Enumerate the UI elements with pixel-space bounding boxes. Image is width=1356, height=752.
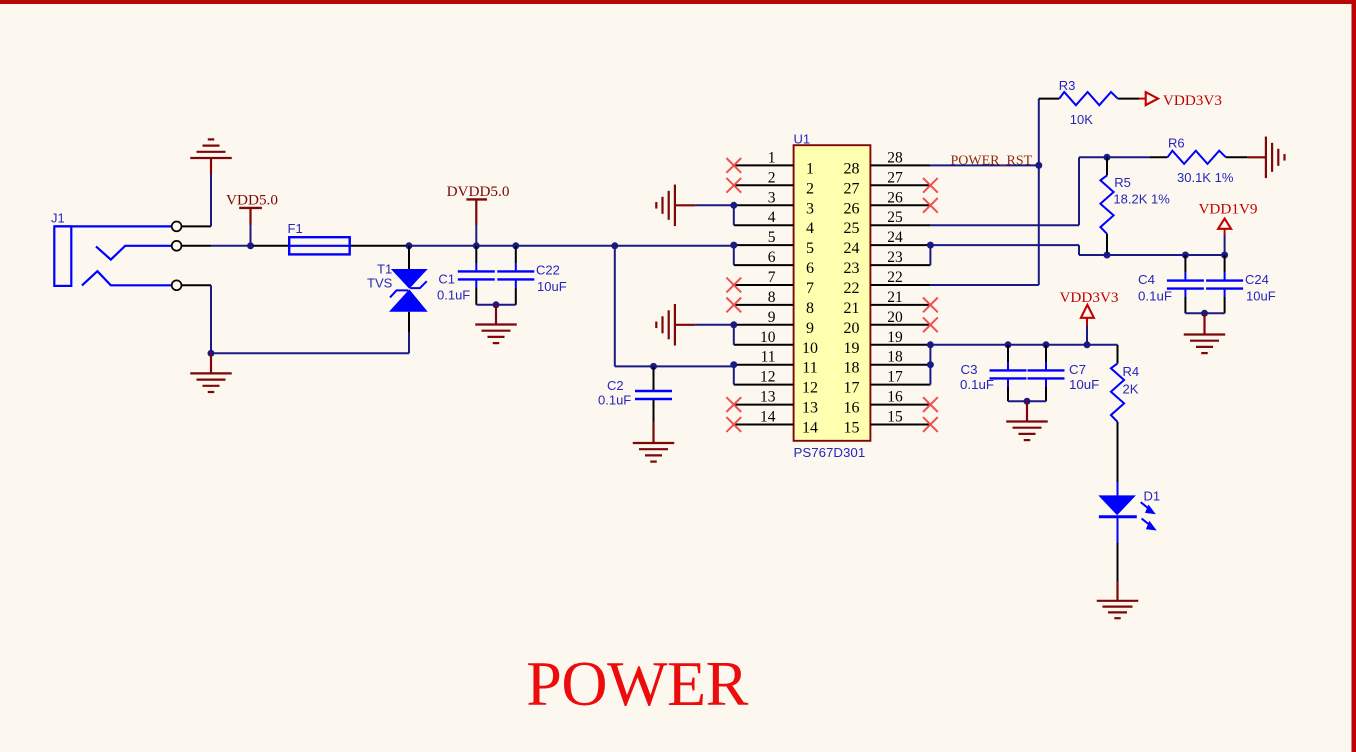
- svg-text:12: 12: [760, 369, 776, 386]
- svg-text:C22: C22: [536, 263, 560, 278]
- ground (C3/C7): [1006, 401, 1048, 440]
- svg-text:0.1uF: 0.1uF: [598, 393, 631, 408]
- svg-text:C3: C3: [961, 362, 978, 377]
- svg-text:26: 26: [887, 189, 903, 206]
- svg-text:TVS: TVS: [367, 276, 393, 291]
- wire VDD3V3 stem: [1086, 326, 1088, 345]
- svg-text:21: 21: [844, 300, 860, 317]
- sheet border right: [1352, 0, 1356, 752]
- svg-text:10uF: 10uF: [1069, 377, 1099, 392]
- U1 pin 2: [734, 169, 814, 197]
- svg-text:6: 6: [806, 260, 814, 277]
- J1 pin 3: [182, 284, 211, 286]
- wire pin 25: [930, 224, 1079, 226]
- capacitor C7: [1028, 345, 1100, 402]
- junction C1/C22 ground: [493, 301, 500, 308]
- svg-text:VDD3V3: VDD3V3: [1059, 289, 1118, 306]
- capacitor C4: [1138, 255, 1204, 313]
- wire F1 to T1 node: [382, 245, 409, 247]
- capacitor C1: [437, 246, 495, 305]
- wire C3-C7 bottom: [1008, 400, 1046, 402]
- wire VDD3V3 rail: [930, 344, 1117, 346]
- resistor R6 30.1K 1%: [1150, 136, 1247, 186]
- no-connect X pin 16: [923, 397, 938, 412]
- wire pin 5 to pin 6: [733, 245, 735, 265]
- svg-text:11: 11: [761, 349, 776, 366]
- svg-text:26: 26: [844, 200, 860, 217]
- wire J1 pin1 to top ground: [210, 174, 212, 226]
- svg-text:12: 12: [802, 380, 818, 397]
- svg-text:20: 20: [844, 320, 860, 337]
- junction pin 3: [730, 202, 737, 209]
- wire pin 23 join: [929, 245, 931, 265]
- svg-text:9: 9: [768, 309, 776, 326]
- svg-text:C1: C1: [438, 272, 455, 287]
- svg-text:5: 5: [806, 240, 814, 257]
- U1 pin 7: [734, 269, 814, 297]
- svg-text:25: 25: [887, 209, 903, 226]
- connector J1: [51, 211, 172, 286]
- svg-text:2K: 2K: [1123, 382, 1139, 397]
- svg-text:4: 4: [768, 209, 776, 226]
- svg-text:VDD1V9: VDD1V9: [1198, 201, 1257, 218]
- svg-text:0.1uF: 0.1uF: [437, 288, 470, 303]
- wire VDD1V9 stem: [1224, 235, 1226, 255]
- U1 pin 24: [844, 229, 931, 257]
- junction C4: [1182, 252, 1189, 259]
- no-connect X pin 13: [726, 397, 741, 412]
- no-connect X pin 15: [923, 417, 938, 432]
- wire D1 to ground: [1117, 543, 1119, 581]
- svg-text:10: 10: [802, 340, 818, 357]
- svg-text:1: 1: [806, 160, 814, 177]
- svg-text:C7: C7: [1069, 362, 1086, 377]
- svg-text:18.2K 1%: 18.2K 1%: [1113, 192, 1170, 207]
- svg-text:POWER: POWER: [526, 648, 748, 719]
- no-connect X pin 14: [726, 417, 741, 432]
- junction pin 19: [927, 341, 934, 348]
- ground (pins 3/4): [656, 185, 695, 227]
- ground (R6, sideways): [1247, 137, 1284, 179]
- junction VDD3V3 stem: [1084, 341, 1091, 348]
- no-connect X pin 21: [923, 298, 938, 313]
- svg-text:2: 2: [768, 169, 776, 186]
- svg-text:J1: J1: [51, 211, 65, 226]
- svg-text:10K: 10K: [1070, 112, 1093, 127]
- junction pin 18: [927, 361, 934, 368]
- power port VDD3V3 (C3/C7): [1059, 289, 1118, 326]
- svg-text:7: 7: [768, 269, 776, 286]
- svg-text:R3: R3: [1059, 78, 1076, 93]
- svg-text:16: 16: [844, 400, 860, 417]
- J1 pin 1: [182, 225, 211, 227]
- sheet border top: [0, 0, 1356, 4]
- svg-text:2: 2: [806, 180, 814, 197]
- U1 pin 26: [844, 189, 931, 217]
- svg-text:10: 10: [760, 329, 776, 346]
- no-connect X pin 1: [726, 158, 741, 173]
- capacitor C2: [598, 366, 672, 422]
- svg-text:17: 17: [844, 380, 860, 397]
- junction pin 24: [927, 242, 934, 249]
- LED D1: [1098, 482, 1160, 543]
- wire bottom ground rail: [211, 352, 409, 354]
- U1 pin 20: [844, 309, 931, 337]
- junction POWER_RST node: [1035, 162, 1042, 169]
- U1 pin 1: [734, 149, 814, 177]
- wire ground to pin 9: [695, 324, 734, 326]
- svg-text:C24: C24: [1245, 272, 1269, 287]
- junction C1: [473, 242, 480, 249]
- svg-text:D1: D1: [1144, 489, 1161, 504]
- wire pin 28 POWER_RST: [930, 164, 1038, 166]
- wire pin 9 to pin 10: [733, 325, 735, 345]
- svg-text:20: 20: [887, 309, 903, 326]
- U1 pin 27: [844, 169, 931, 197]
- ground (pins 9/10): [656, 304, 695, 346]
- port VDD3V3 (R3): [1139, 92, 1222, 109]
- U1 pin 14: [734, 409, 818, 437]
- U1 pin 25: [844, 209, 931, 237]
- junction R5 bottom: [1104, 252, 1111, 259]
- svg-text:0.1uF: 0.1uF: [960, 377, 994, 392]
- wire node up to R3: [1038, 99, 1040, 166]
- wire VDD1V9 rail: [1079, 254, 1225, 256]
- U1 pin 3: [734, 189, 814, 217]
- wire J1 pin3 down: [210, 285, 212, 353]
- wire VDD5.0 to main rail: [250, 225, 252, 246]
- svg-text:18: 18: [887, 349, 903, 366]
- no-connect X pin 7: [726, 278, 741, 293]
- svg-text:28: 28: [887, 149, 903, 166]
- wire pin 24/23 to VDD1V9 rail: [930, 244, 1079, 246]
- power port VDD5.0: [226, 192, 278, 226]
- capacitor C24: [1206, 255, 1276, 313]
- wire ground to pin 3: [695, 204, 734, 206]
- svg-text:27: 27: [887, 169, 903, 186]
- U1 pin 22: [844, 269, 931, 297]
- U1 pin 6: [734, 249, 814, 277]
- capacitor C22: [497, 246, 566, 305]
- svg-text:C2: C2: [607, 378, 624, 393]
- U1 pin 5: [734, 229, 814, 257]
- wire pin 11 to pin 12: [733, 365, 735, 385]
- no-connect X pin 20: [923, 317, 938, 332]
- junction R5 top: [1104, 154, 1111, 161]
- svg-text:23: 23: [844, 260, 860, 277]
- U1 pin 9: [734, 309, 814, 337]
- U1 pin 8: [734, 289, 814, 317]
- wire C1-C22 bottom: [476, 304, 516, 306]
- wire C4-C24 bottom: [1185, 312, 1224, 314]
- U1 pin 13: [734, 389, 818, 417]
- TVS diode T1: [367, 246, 428, 332]
- U1 pin 10: [734, 329, 818, 357]
- junction T1: [406, 242, 413, 249]
- svg-text:10uF: 10uF: [1246, 289, 1276, 304]
- junction C2: [650, 363, 657, 370]
- wire pin11 row: [615, 365, 734, 367]
- wire main 5V rail: [409, 245, 734, 247]
- svg-text:8: 8: [806, 300, 814, 317]
- svg-text:6: 6: [768, 249, 776, 266]
- resistor R4 2K: [1111, 345, 1139, 482]
- IC U1 PS767D301: [794, 132, 871, 461]
- power port VDD1V9: [1198, 201, 1257, 236]
- svg-text:4: 4: [806, 220, 814, 237]
- no-connect X pin 27: [923, 178, 938, 193]
- svg-text:24: 24: [844, 240, 860, 257]
- svg-text:23: 23: [887, 249, 903, 266]
- svg-text:3: 3: [768, 189, 776, 206]
- svg-text:POWER_RST: POWER_RST: [951, 154, 1033, 169]
- svg-text:21: 21: [887, 289, 903, 306]
- wire DVDD5.0 to rail: [475, 225, 477, 246]
- U1 pin 19: [844, 329, 931, 357]
- svg-text:14: 14: [760, 409, 776, 426]
- svg-text:VDD5.0: VDD5.0: [226, 192, 278, 209]
- junction C24/VDD1V9: [1221, 252, 1228, 259]
- svg-text:5: 5: [768, 229, 776, 246]
- U1 pin 23: [844, 249, 931, 277]
- wire pins 17/18/19 join: [929, 345, 931, 385]
- U1 pin 4: [734, 209, 814, 237]
- svg-text:R5: R5: [1114, 175, 1131, 190]
- J1 pin 2: [182, 245, 211, 247]
- U1 pin 28: [844, 149, 931, 177]
- svg-text:22: 22: [844, 280, 860, 297]
- no-connect X pin 26: [923, 198, 938, 213]
- ground (C4/C24): [1184, 313, 1226, 353]
- wire T1 to ground rail: [408, 332, 410, 353]
- svg-text:19: 19: [887, 329, 903, 346]
- U1 pin 21: [844, 289, 931, 317]
- svg-text:25: 25: [844, 220, 860, 237]
- junction C22: [512, 242, 519, 249]
- svg-text:7: 7: [806, 280, 814, 297]
- svg-text:1: 1: [768, 149, 776, 166]
- no-connect X pin 2: [726, 178, 741, 193]
- junction pin 5: [730, 242, 737, 249]
- ground (top, inverted): [190, 139, 232, 174]
- wire node down to pin 22: [1038, 165, 1040, 285]
- no-connect X pin 8: [726, 298, 741, 313]
- power port DVDD5.0: [447, 183, 510, 225]
- wire R6/R5 node: [1079, 156, 1150, 158]
- capacitor C3: [960, 345, 1027, 402]
- svg-text:18: 18: [844, 360, 860, 377]
- svg-text:15: 15: [844, 420, 860, 437]
- wire branch down to pin11 row: [614, 246, 616, 367]
- svg-text:3: 3: [806, 200, 814, 217]
- U1 pin 12: [734, 369, 818, 397]
- junction C3/C7 ground: [1024, 398, 1031, 405]
- svg-text:8: 8: [768, 289, 776, 306]
- svg-text:F1: F1: [288, 221, 303, 236]
- svg-text:22: 22: [887, 269, 903, 286]
- ground (D1): [1097, 581, 1139, 618]
- resistor R3 10K: [1039, 78, 1139, 127]
- svg-text:DVDD5.0: DVDD5.0: [447, 183, 510, 200]
- U1 pin 15: [844, 409, 931, 437]
- svg-text:PS767D301: PS767D301: [794, 445, 866, 460]
- svg-text:30.1K 1%: 30.1K 1%: [1177, 170, 1234, 185]
- wire J1 pin2 to F1: [211, 245, 253, 247]
- junction pin 11: [730, 361, 737, 368]
- ground (C1/C22): [475, 305, 517, 343]
- svg-text:R6: R6: [1168, 136, 1185, 151]
- svg-text:19: 19: [844, 340, 860, 357]
- ground (below J1): [190, 353, 232, 392]
- junction pin 9: [730, 321, 737, 328]
- junction C7: [1043, 341, 1050, 348]
- fuse F1: [253, 221, 382, 254]
- wire pin 3 to pin 4: [733, 205, 735, 225]
- svg-text:10uF: 10uF: [537, 279, 567, 294]
- svg-text:14: 14: [802, 420, 818, 437]
- svg-text:15: 15: [887, 409, 903, 426]
- U1 pin 18: [844, 349, 931, 377]
- svg-text:24: 24: [887, 229, 903, 246]
- svg-text:0.1uF: 0.1uF: [1138, 289, 1172, 304]
- svg-text:13: 13: [760, 389, 776, 406]
- svg-text:11: 11: [802, 360, 817, 377]
- junction C4/C24 ground: [1201, 310, 1208, 317]
- U1 pin 16: [844, 389, 931, 417]
- svg-text:13: 13: [802, 400, 818, 417]
- svg-text:VDD3V3: VDD3V3: [1163, 92, 1222, 109]
- svg-text:16: 16: [887, 389, 903, 406]
- svg-text:R4: R4: [1123, 364, 1140, 379]
- svg-text:C4: C4: [1138, 272, 1155, 287]
- ground (C2): [633, 423, 675, 462]
- junction J1-ground: [208, 350, 215, 357]
- junction VDD5.0: [247, 242, 254, 249]
- junction C3: [1005, 341, 1012, 348]
- resistor R5 18.2K 1%: [1100, 157, 1170, 255]
- U1 pin 11: [734, 349, 818, 377]
- svg-text:T1: T1: [377, 262, 392, 277]
- svg-text:9: 9: [806, 320, 814, 337]
- junction branch to pins 11/12: [611, 242, 618, 249]
- svg-text:17: 17: [887, 369, 903, 386]
- U1 pin 17: [844, 369, 931, 397]
- svg-text:27: 27: [844, 180, 860, 197]
- svg-text:28: 28: [844, 160, 860, 177]
